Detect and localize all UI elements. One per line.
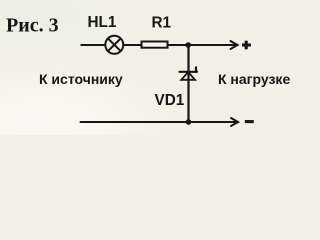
svg-text:К нагрузке: К нагрузке [218, 71, 290, 87]
svg-text:К источнику: К источнику [39, 71, 123, 87]
svg-text:Рис. 3: Рис. 3 [6, 14, 59, 36]
svg-text:VD1: VD1 [155, 92, 185, 109]
svg-text:HL1: HL1 [88, 14, 117, 31]
svg-text:R1: R1 [152, 15, 172, 32]
